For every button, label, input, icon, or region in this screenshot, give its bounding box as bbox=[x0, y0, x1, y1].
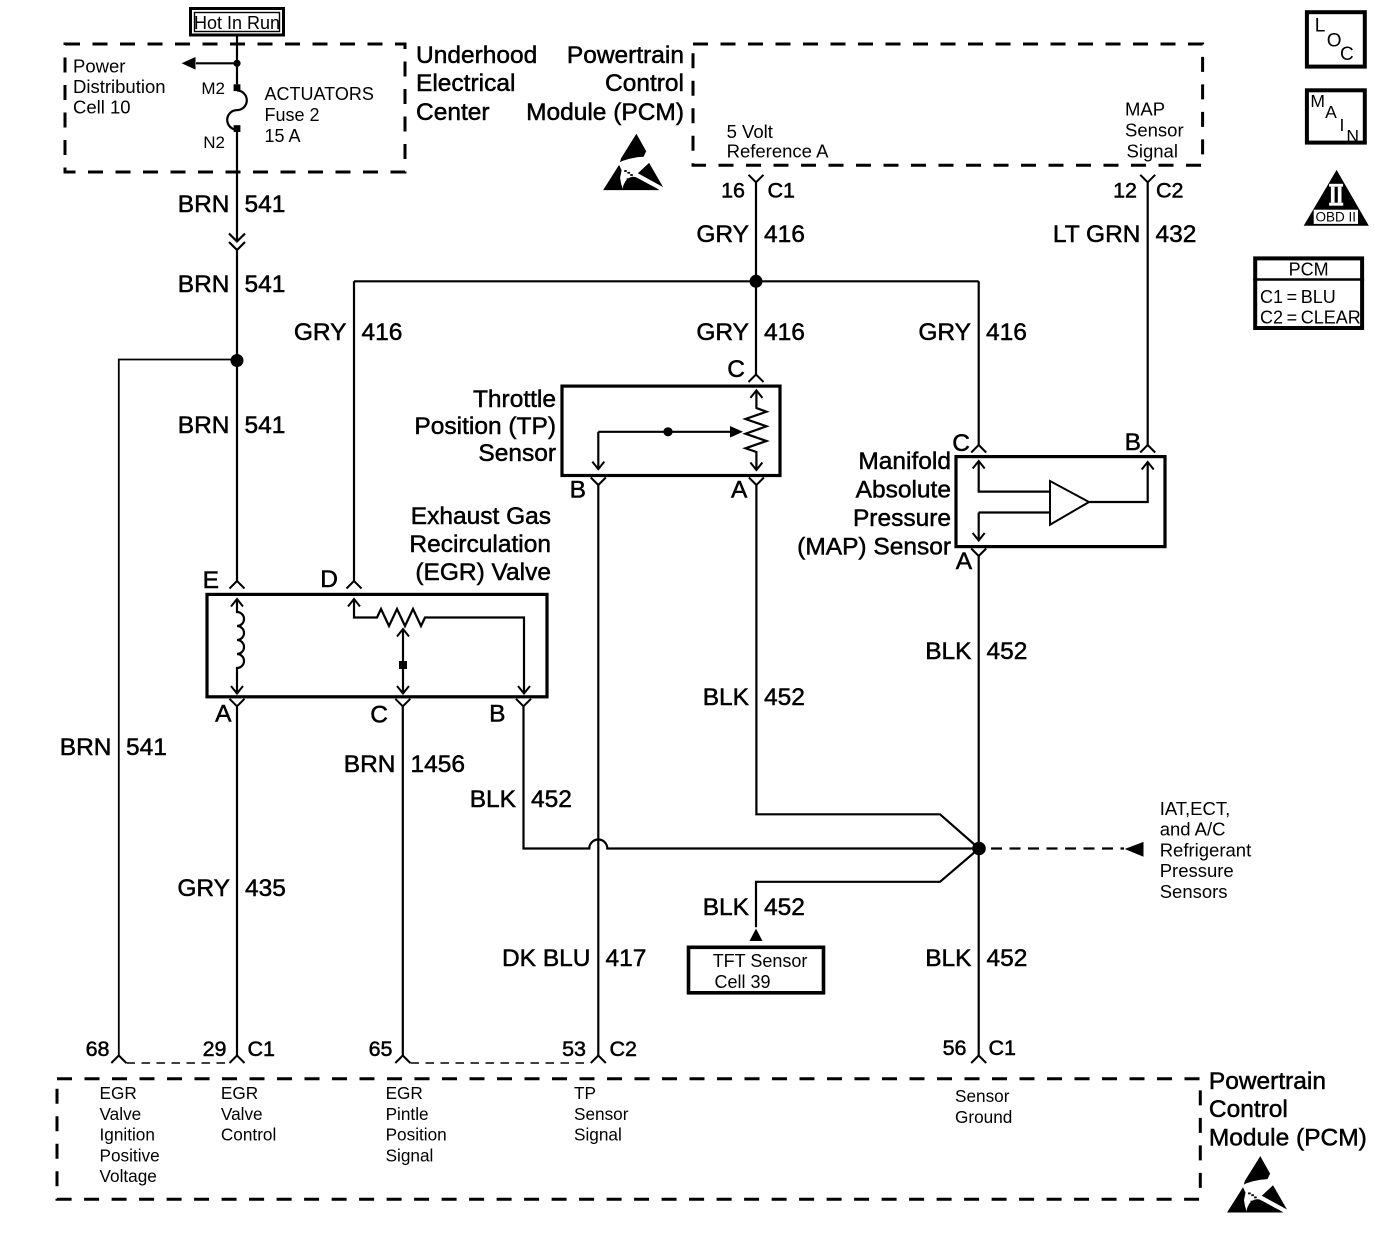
pin 12 C2 connector (PCM) bbox=[1140, 175, 1155, 183]
svg-text:Pressure: Pressure bbox=[1160, 860, 1234, 881]
pin D connector (EGR valve) bbox=[347, 581, 362, 589]
pin C connector (MAP sensor) bbox=[971, 445, 986, 453]
pin A connector (EGR valve) bbox=[230, 699, 245, 707]
svg-text:Powertrain: Powertrain bbox=[1209, 1068, 1326, 1095]
svg-text:452: 452 bbox=[987, 945, 1028, 972]
svg-text:435: 435 bbox=[245, 875, 286, 902]
junction node sensor ground bbox=[972, 842, 986, 856]
svg-text:541: 541 bbox=[245, 191, 286, 218]
svg-text:M2: M2 bbox=[201, 79, 225, 98]
PCM connector legend box bbox=[1253, 258, 1364, 328]
Throttle Position sensor box bbox=[562, 386, 780, 475]
pin B connector (TP sensor) bbox=[591, 478, 606, 486]
pin E connector (EGR valve) bbox=[230, 581, 245, 589]
svg-text:5 Volt: 5 Volt bbox=[727, 121, 773, 142]
svg-text:1456: 1456 bbox=[411, 751, 466, 778]
svg-text:416: 416 bbox=[362, 319, 403, 346]
svg-text:N2: N2 bbox=[203, 133, 225, 152]
svg-text:29: 29 bbox=[203, 1037, 227, 1061]
svg-text:452: 452 bbox=[764, 894, 805, 921]
svg-text:Electrical: Electrical bbox=[416, 70, 515, 97]
svg-text:Recirculation: Recirculation bbox=[409, 531, 551, 558]
ESD sensitivity symbol (top PCM) bbox=[603, 134, 663, 190]
wire: left branch from junction to pin 68 bbox=[119, 360, 237, 1056]
svg-text:EGR: EGR bbox=[100, 1083, 137, 1103]
fuse element bbox=[227, 91, 247, 130]
svg-text:GRY: GRY bbox=[177, 875, 230, 902]
junction node on GRY 416 wire bbox=[750, 275, 763, 288]
svg-text:Sensors: Sensors bbox=[1160, 881, 1228, 902]
wire: arrow branch to Power Distribution bbox=[196, 62, 237, 64]
pin C connector (TP sensor) bbox=[749, 375, 764, 383]
svg-text:C1 = BLU: C1 = BLU bbox=[1260, 287, 1336, 307]
svg-text:68: 68 bbox=[86, 1037, 110, 1061]
svg-text:N: N bbox=[1346, 126, 1359, 146]
svg-text:432: 432 bbox=[1156, 221, 1197, 248]
wire: 16 C1 down to junction bbox=[755, 182, 757, 281]
svg-text:GRY: GRY bbox=[918, 319, 971, 346]
svg-text:ACTUATORS: ACTUATORS bbox=[265, 84, 374, 104]
svg-text:Manifold: Manifold bbox=[858, 448, 951, 475]
svg-text:C: C bbox=[727, 356, 745, 383]
svg-text:C: C bbox=[952, 430, 970, 457]
svg-text:A: A bbox=[956, 548, 973, 575]
wire: right drop to MAP pin C bbox=[978, 281, 980, 445]
inductor L1 EGR solenoid coil bbox=[237, 599, 244, 694]
svg-text:Ignition: Ignition bbox=[100, 1125, 155, 1145]
EGR valve box bbox=[207, 594, 547, 696]
svg-text:Control: Control bbox=[221, 1125, 276, 1145]
svg-text:417: 417 bbox=[606, 945, 647, 972]
resistor R1 potentiometer element (TP sensor) bbox=[746, 390, 767, 470]
svg-text:A: A bbox=[1325, 102, 1337, 122]
MAP internal lead to pin A bbox=[978, 513, 980, 541]
svg-text:Position (TP): Position (TP) bbox=[414, 413, 556, 440]
svg-text:Position: Position bbox=[386, 1125, 447, 1145]
pin 29 C1 connector (PCM bottom) bbox=[230, 1056, 245, 1064]
arrowhead to IAT ECT sensors bbox=[1125, 842, 1144, 857]
svg-text:(EGR) Valve: (EGR) Valve bbox=[415, 559, 551, 586]
svg-text:L: L bbox=[1315, 16, 1326, 37]
fuse terminal N2 bbox=[234, 125, 241, 132]
MAP internal lead from pin C to amplifier input bbox=[979, 461, 1050, 492]
svg-text:Pressure: Pressure bbox=[853, 505, 951, 532]
op-amp U1 amplifier triangle (MAP sensor) bbox=[1050, 481, 1089, 525]
svg-text:16: 16 bbox=[721, 179, 745, 203]
svg-text:Absolute: Absolute bbox=[856, 477, 951, 504]
pin A connector (TP sensor) bbox=[749, 478, 764, 486]
svg-text:BRN: BRN bbox=[60, 734, 112, 761]
wire: LT GRN 432 from 12 C2 to MAP pin B bbox=[1147, 182, 1149, 445]
svg-text:C2: C2 bbox=[610, 1037, 637, 1061]
svg-text:Center: Center bbox=[416, 99, 490, 126]
svg-text:GRY: GRY bbox=[294, 319, 347, 346]
junction dot at arrow branch bbox=[233, 60, 240, 67]
svg-text:452: 452 bbox=[531, 786, 572, 813]
svg-text:A: A bbox=[731, 477, 748, 504]
svg-text:Valve: Valve bbox=[221, 1104, 263, 1124]
arrowhead to Power Distribution bbox=[182, 57, 196, 70]
svg-text:B: B bbox=[1125, 429, 1141, 456]
MAP internal lead to amplifier lower input bbox=[979, 511, 1050, 513]
pin 16 C1 connector (PCM) bbox=[749, 175, 764, 183]
svg-text:541: 541 bbox=[245, 271, 286, 298]
wire: Hot In Run down to fuse bbox=[236, 35, 238, 84]
wire: EGR pin B down and right with hump over vertical wire bbox=[524, 706, 973, 848]
svg-text:I: I bbox=[1340, 115, 1345, 135]
dashed link pin 65 to 53 bbox=[411, 1062, 591, 1064]
MAIN box bbox=[1307, 90, 1365, 142]
svg-text:C2 = CLEAR: C2 = CLEAR bbox=[1260, 308, 1361, 328]
svg-text:Exhaust Gas: Exhaust Gas bbox=[411, 503, 551, 530]
svg-text:Throttle: Throttle bbox=[473, 386, 556, 413]
PCM top dashed box bbox=[693, 44, 1203, 165]
svg-text:C: C bbox=[1340, 44, 1354, 65]
wire: EGR pin C down to pin 65 bbox=[402, 706, 404, 1055]
svg-text:TFT Sensor: TFT Sensor bbox=[713, 951, 808, 971]
svg-text:(MAP) Sensor: (MAP) Sensor bbox=[797, 534, 951, 561]
wire: EGR pin A down to pin 29 bbox=[236, 706, 238, 1055]
svg-text:53: 53 bbox=[562, 1037, 586, 1061]
svg-text:BRN: BRN bbox=[178, 191, 230, 218]
OBD II triangle bbox=[1304, 170, 1369, 226]
Underhood Electrical Center dashed box bbox=[65, 44, 405, 172]
svg-text:BLK: BLK bbox=[470, 786, 517, 813]
svg-text:15 A: 15 A bbox=[265, 126, 301, 146]
svg-text:Sensor: Sensor bbox=[1125, 120, 1184, 141]
wire: TP pin B down to pin 53 bbox=[597, 485, 599, 1056]
svg-text:GRY: GRY bbox=[696, 319, 749, 346]
svg-text:Signal: Signal bbox=[574, 1125, 622, 1145]
svg-text:BRN: BRN bbox=[344, 751, 396, 778]
svg-text:A: A bbox=[215, 701, 232, 728]
svg-text:416: 416 bbox=[986, 319, 1027, 346]
svg-text:Sensor: Sensor bbox=[955, 1086, 1010, 1106]
svg-text:MAP: MAP bbox=[1125, 99, 1165, 120]
svg-text:B: B bbox=[570, 477, 586, 504]
svg-text:PCM: PCM bbox=[1289, 260, 1329, 280]
svg-text:Hot In Run: Hot In Run bbox=[194, 13, 280, 33]
svg-text:416: 416 bbox=[764, 319, 805, 346]
svg-text:Signal: Signal bbox=[1127, 141, 1178, 162]
svg-text:Fuse 2: Fuse 2 bbox=[265, 105, 320, 125]
svg-text:GRY: GRY bbox=[696, 221, 749, 248]
svg-text:Cell 10: Cell 10 bbox=[73, 97, 131, 118]
svg-text:M: M bbox=[1310, 91, 1325, 111]
wire: junction down to TP pin C bbox=[755, 281, 757, 375]
pin 53 C2 connector (PCM bottom) bbox=[591, 1056, 606, 1064]
arrowhead to TFT sensor bbox=[750, 929, 763, 941]
pin 65 connector (PCM bottom) bbox=[395, 1056, 410, 1064]
svg-text:BLK: BLK bbox=[703, 894, 750, 921]
pin B connector (MAP sensor) bbox=[1140, 445, 1155, 453]
pin B connector (EGR valve) bbox=[516, 699, 531, 707]
svg-text:Positive: Positive bbox=[100, 1145, 160, 1165]
svg-text:Ground: Ground bbox=[955, 1107, 1012, 1127]
svg-text:452: 452 bbox=[764, 684, 805, 711]
svg-text:Valve: Valve bbox=[100, 1104, 142, 1124]
pin 68 connector (PCM bottom) bbox=[111, 1056, 126, 1064]
wire: TP pin A down and over to ground junction bbox=[756, 485, 979, 849]
resistor R2 pintle position potentiometer (EGR) bbox=[354, 599, 524, 694]
svg-text:Distribution: Distribution bbox=[73, 76, 166, 97]
svg-text:Powertrain: Powertrain bbox=[567, 42, 684, 69]
wire: left drop to EGR pin D bbox=[353, 281, 355, 581]
pin A connector (MAP sensor) bbox=[971, 549, 986, 557]
wire: GRY 416 horizontal distribution bbox=[354, 280, 979, 282]
svg-text:BRN: BRN bbox=[178, 412, 230, 439]
svg-text:65: 65 bbox=[369, 1037, 393, 1061]
svg-text:Control: Control bbox=[1209, 1096, 1288, 1123]
ESD sensitivity symbol (bottom PCM) bbox=[1227, 1156, 1287, 1212]
svg-text:541: 541 bbox=[245, 412, 286, 439]
svg-text:DK BLU: DK BLU bbox=[502, 945, 591, 972]
PCM bottom dashed box bbox=[57, 1079, 1200, 1200]
svg-text:12: 12 bbox=[1113, 179, 1137, 203]
svg-text:Refrigerant: Refrigerant bbox=[1160, 839, 1252, 860]
svg-text:416: 416 bbox=[764, 221, 805, 248]
inline connector chevrons bbox=[229, 234, 245, 242]
svg-text:B: B bbox=[489, 701, 505, 728]
fuse terminal M2 bbox=[234, 84, 241, 91]
svg-text:Cell 39: Cell 39 bbox=[715, 972, 771, 992]
TFT Sensor Cell 39 box bbox=[689, 947, 824, 993]
svg-text:C1: C1 bbox=[768, 179, 795, 203]
svg-text:IAT,ECT,: IAT,ECT, bbox=[1160, 798, 1231, 819]
svg-text:C: C bbox=[370, 702, 388, 729]
svg-text:and A/C: and A/C bbox=[1160, 819, 1226, 840]
svg-text:EGR: EGR bbox=[386, 1083, 423, 1103]
junction node on BRN 541 wire bbox=[231, 354, 244, 367]
svg-text:BRN: BRN bbox=[178, 271, 230, 298]
svg-text:541: 541 bbox=[126, 734, 167, 761]
MAP internal lead from amplifier output to pin B bbox=[1089, 462, 1148, 502]
svg-text:C1: C1 bbox=[989, 1036, 1016, 1060]
dashed link pin 68 to 29 bbox=[127, 1062, 230, 1064]
wire: connector to EGR pin E bbox=[236, 250, 238, 581]
potentiometer wiper arm (TP sensor) bbox=[598, 431, 731, 433]
svg-text:Pintle: Pintle bbox=[386, 1104, 429, 1124]
LOC locator box bbox=[1307, 12, 1365, 66]
svg-text:BLK: BLK bbox=[925, 945, 972, 972]
svg-text:Reference A: Reference A bbox=[727, 141, 829, 162]
svg-text:Module (PCM): Module (PCM) bbox=[1209, 1125, 1367, 1152]
wire: fuse to inline connector bbox=[236, 132, 238, 242]
svg-text:Power: Power bbox=[73, 56, 125, 77]
svg-text:LT GRN: LT GRN bbox=[1053, 221, 1141, 248]
wire: MAP pin A down through junction to pin 56 bbox=[978, 556, 980, 1056]
svg-text:D: D bbox=[320, 566, 338, 593]
svg-text:452: 452 bbox=[987, 638, 1028, 665]
svg-text:Sensor: Sensor bbox=[478, 440, 556, 467]
pin C connector (EGR valve) bbox=[395, 699, 410, 707]
svg-text:56: 56 bbox=[943, 1036, 967, 1060]
svg-text:EGR: EGR bbox=[221, 1083, 258, 1103]
svg-text:Sensor: Sensor bbox=[574, 1104, 629, 1124]
svg-text:Control: Control bbox=[605, 70, 684, 97]
Hot In Run box bbox=[191, 9, 284, 36]
svg-text:OBD II: OBD II bbox=[1316, 209, 1357, 224]
svg-text:Underhood: Underhood bbox=[416, 42, 537, 69]
svg-text:C1: C1 bbox=[248, 1037, 275, 1061]
svg-text:TP: TP bbox=[574, 1083, 596, 1103]
pin 56 C1 connector (PCM bottom) bbox=[971, 1056, 986, 1064]
potentiometer wiper arm (EGR pintle) bbox=[402, 629, 404, 694]
svg-text:E: E bbox=[203, 567, 219, 594]
svg-text:BLK: BLK bbox=[703, 684, 750, 711]
MAP sensor box bbox=[956, 457, 1165, 547]
dashed wire to IAT ECT sensors bbox=[991, 847, 1124, 849]
svg-text:C2: C2 bbox=[1156, 179, 1183, 203]
svg-text:BLK: BLK bbox=[925, 638, 972, 665]
wire: TFT sensor branch up to junction bbox=[756, 849, 979, 928]
svg-text:Signal: Signal bbox=[386, 1145, 434, 1165]
svg-text:Voltage: Voltage bbox=[100, 1166, 157, 1186]
svg-text:Module (PCM): Module (PCM) bbox=[526, 99, 684, 126]
